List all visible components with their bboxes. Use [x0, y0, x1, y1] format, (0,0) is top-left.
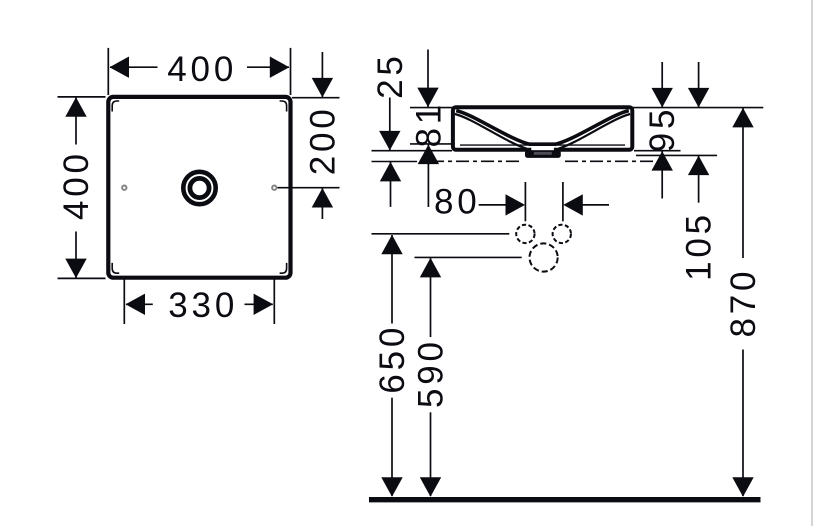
dimension 400 top: dimension line and arrows [110, 57, 290, 78]
dimension 200 right: extension lines [278, 98, 340, 188]
dimension 105: line and arrows (outside) [688, 62, 709, 203]
dimension 81: line and arrows (outside) [417, 50, 439, 208]
inner corner arc top-right [280, 101, 287, 112]
mounting dash-dot line [431, 160, 656, 162]
dimension 80: extension lines above holes [525, 182, 563, 221]
svg-text:650: 650 [373, 324, 412, 394]
svg-text:80: 80 [434, 182, 481, 221]
reference line small holes center [372, 233, 510, 235]
dimension 81: label (rotated) [409, 101, 448, 148]
fixing dot right [272, 186, 276, 190]
fixing dot left [122, 186, 126, 190]
drain fitting bump [525, 150, 561, 158]
dimension 80: line and arrows (outside) [479, 194, 609, 215]
dimension 590: line and arrows (inside) [420, 258, 441, 497]
dimension 330 bottom: dimension line and arrows [126, 294, 274, 315]
svg-text:330: 330 [168, 286, 238, 325]
drain fitting slot [534, 152, 552, 155]
bowl curve left (inner thin) [455, 114, 527, 149]
dimension 400 left: extension lines [58, 97, 106, 279]
dimension 870: line and arrows (inside) [732, 108, 753, 497]
dimension 95: line and arrows (outside) [652, 62, 673, 199]
dimension 25: label (rotated) [371, 52, 410, 99]
faucet hole left (dashed) [516, 225, 534, 243]
inner corner arc bottom-left [112, 263, 119, 273]
dimension 400 left: label (rotated) [57, 150, 96, 220]
reference line basin bottom right [634, 150, 681, 152]
dimension 25: reference lines [372, 151, 453, 162]
drain recess (white notch) [531, 146, 554, 150]
dimension 650: line and arrows (inside) [381, 235, 402, 497]
dimension 870: label (rotated) [724, 268, 763, 338]
dimension 95: label (rotated) [643, 106, 682, 153]
bowl curve right (outer thick) [555, 111, 629, 145]
svg-text:81: 81 [409, 101, 448, 148]
svg-text:590: 590 [412, 338, 451, 408]
svg-text:25: 25 [371, 52, 410, 99]
bowl curve left (outer thick) [456, 111, 530, 145]
floor line [369, 497, 761, 502]
dimension 81: reference line (bowl inside bottom) [410, 143, 452, 145]
basin profile outline [453, 107, 632, 150]
dimension 330 bottom: extension lines [124, 277, 274, 324]
reference line large hole center [415, 256, 522, 258]
drain recess top line [529, 142, 557, 146]
svg-text:400: 400 [57, 150, 96, 220]
dimension 400 top: extension lines [108, 48, 290, 95]
drain outer ring [183, 172, 215, 204]
svg-text:200: 200 [303, 106, 342, 176]
faucet hole right (dashed) [553, 225, 571, 243]
dimension 400 left: dimension line and arrows [65, 97, 86, 278]
dimension 105: label (rotated) [680, 211, 719, 281]
drain inner ring [190, 178, 209, 197]
dimension 200 right: dimension line and arrows (outside) [312, 52, 333, 219]
inner corner arc top-left [112, 101, 119, 112]
page right edge gray rule [811, 0, 813, 526]
inner corner arc bottom-right [280, 263, 287, 273]
bowl curve right (inner thin) [559, 114, 631, 149]
svg-text:105: 105 [680, 211, 719, 281]
svg-text:400: 400 [167, 50, 237, 89]
reference line drain bottom right [636, 154, 717, 156]
dimension 200 right: label (rotated) [303, 106, 342, 176]
svg-text:95: 95 [643, 106, 682, 153]
dimension 25: line and arrows (outside) [379, 98, 401, 207]
basin outline (top view square) [108, 97, 290, 278]
mixer hole large (dashed) [530, 243, 558, 271]
dimension 650: label (rotated) [373, 324, 412, 394]
top reference line [410, 107, 763, 109]
svg-text:870: 870 [724, 268, 763, 338]
dimension 590: label (rotated) [412, 338, 451, 408]
bowl inner far-bottom line [460, 144, 625, 146]
